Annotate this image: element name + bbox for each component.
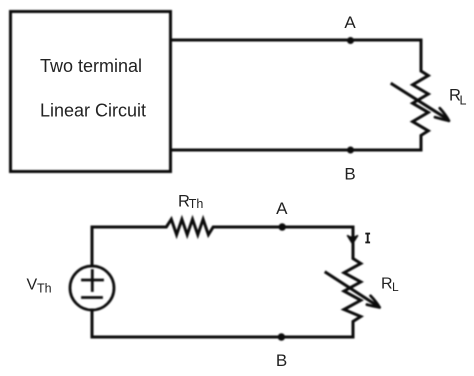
svg-text:A: A: [344, 13, 356, 32]
svg-text:L: L: [392, 280, 399, 294]
svg-text:Two terminal: Two terminal: [40, 56, 142, 76]
svg-text:L: L: [460, 94, 467, 108]
svg-text:V: V: [27, 277, 38, 294]
svg-text:Linear Circuit: Linear Circuit: [40, 101, 146, 121]
svg-text:B: B: [276, 351, 287, 370]
svg-text:Th: Th: [37, 281, 52, 295]
svg-text:Th: Th: [189, 197, 204, 211]
svg-text:R: R: [381, 276, 393, 293]
svg-text:A: A: [276, 199, 288, 218]
svg-text:B: B: [344, 165, 355, 184]
